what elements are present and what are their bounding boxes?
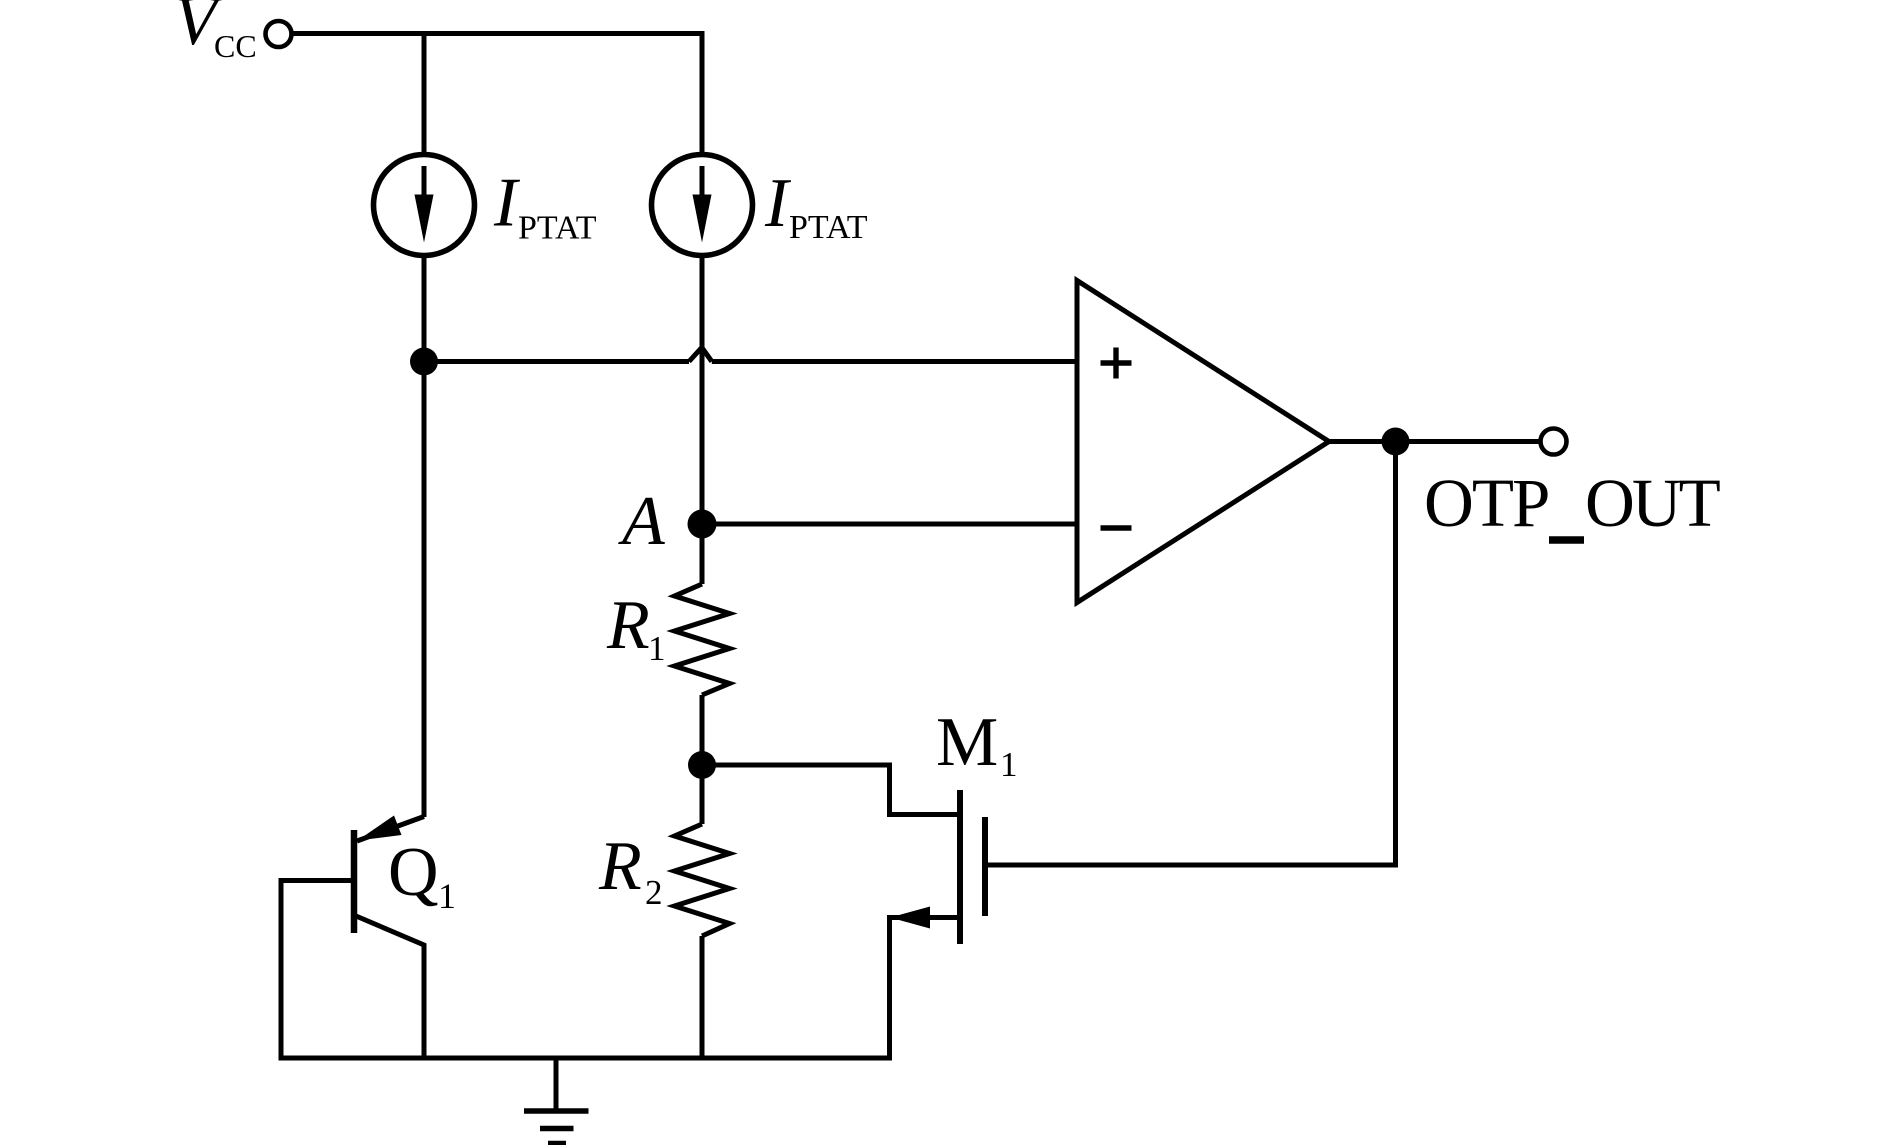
label IPTAT right [764,165,868,246]
wire top rail Vcc to right branch corner [292,31,702,36]
wire R1 to mid node [700,695,705,765]
transistor Q1 base wire [281,881,354,1059]
wire right branch top [700,31,705,156]
op-amp plus sign [1101,348,1132,379]
transistor M1 source arrow [890,907,930,929]
wire mid node to R2 [700,765,705,824]
label IPTAT left [493,165,597,247]
wire left branch top [422,34,427,157]
current source I1 arrow [415,166,434,243]
svg-text:OTP: OTP [1424,465,1548,541]
wire node A to R1 [700,524,705,584]
current source I2 arrow [693,166,712,243]
svg-text:R: R [598,828,642,905]
node dot between R1 and R2 [688,751,716,779]
wire plus input left segment [424,359,689,364]
transistor M1 gate bar [982,817,988,916]
node dot left branch [410,348,438,376]
svg-text:M: M [936,704,998,781]
label Vcc [174,0,257,64]
svg-text:2: 2 [645,873,663,912]
label R1 [606,587,666,668]
ground bar 2 [540,1126,574,1132]
transistor Q1 emitter diagonal [357,817,424,842]
label R2 [598,828,663,912]
node dot A [688,510,717,539]
ground stub [554,1058,559,1111]
transistor Q1 collector diagonal and wire [356,916,424,1058]
output terminal OTP_OUT circle [1541,429,1567,455]
op-amp U1 triangle [1077,281,1329,603]
node dot op-amp output [1382,428,1410,456]
svg-text:A: A [618,483,665,560]
Vcc terminal [266,21,292,47]
label Q1 [388,834,456,916]
label M1 [936,704,1018,784]
wire plus input right segment [712,359,1079,364]
transistor M1 channel bar [957,790,963,944]
wire op-amp output [1330,439,1541,444]
svg-text:1: 1 [438,876,456,916]
wire R2 to bottom rail [700,936,705,1058]
svg-text:OUT: OUT [1585,465,1720,541]
wire gate feedback from output node down and left to M1 gate [985,442,1396,866]
svg-text:Q: Q [388,834,439,911]
ground bar 1 [524,1108,589,1114]
wire right branch I2 to node A [700,256,705,525]
svg-text:I: I [493,165,521,242]
bottom ground rail [279,1056,893,1061]
wire left branch middle (I1 to Q1 emitter) [422,256,427,818]
op-amp minus sign [1101,525,1132,530]
wire crossover hop [689,348,712,362]
resistor R1 zigzag [675,584,730,695]
svg-text:1: 1 [1000,745,1018,784]
current source I1 circle [374,155,475,256]
resistor R2 zigzag [675,824,730,936]
svg-text:PTAT: PTAT [518,210,597,247]
svg-text:CC: CC [214,28,257,64]
transistor Q1 emitter arrow [358,816,402,841]
svg-text:1: 1 [648,629,666,668]
wire minus input [702,522,1079,527]
svg-text:I: I [764,165,792,242]
ground bar 3 [548,1141,566,1145]
transistor Q1 base bar [351,830,358,933]
current source I2 circle [652,155,753,256]
svg-text:R: R [606,587,650,664]
transistor M1 source wire [890,918,961,1059]
svg-text:PTAT: PTAT [789,209,868,246]
wire mid node to M1 drain [702,765,960,815]
